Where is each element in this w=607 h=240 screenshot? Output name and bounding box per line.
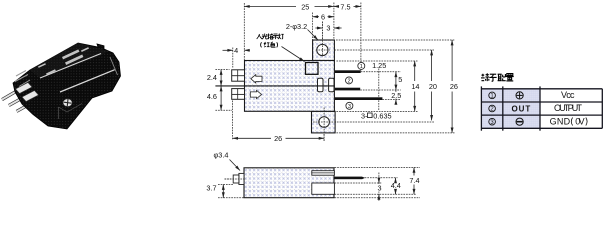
svg-text:0V: 0V	[575, 117, 584, 127]
svg-text:OUT: OUT	[512, 104, 531, 113]
svg-text:3.7: 3.7	[206, 184, 216, 193]
svg-text:25: 25	[301, 2, 309, 11]
svg-text:7.5: 7.5	[340, 2, 350, 11]
svg-text:26: 26	[274, 134, 282, 143]
svg-text:4.4: 4.4	[391, 181, 401, 190]
svg-text:2-φ3.2: 2-φ3.2	[286, 22, 307, 31]
svg-text:φ3.4: φ3.4	[214, 150, 229, 159]
svg-text:Vcc: Vcc	[561, 90, 575, 100]
svg-text:0.635: 0.635	[373, 112, 391, 121]
svg-text:2: 2	[347, 79, 350, 85]
svg-text:3: 3	[348, 104, 351, 110]
svg-text:4: 4	[234, 46, 238, 55]
svg-text:7.4: 7.4	[409, 176, 419, 185]
svg-text:3: 3	[377, 184, 381, 193]
svg-text:20: 20	[429, 82, 437, 91]
svg-text:5: 5	[398, 75, 402, 84]
svg-text:4.6: 4.6	[207, 92, 217, 101]
svg-text:26: 26	[450, 82, 458, 91]
svg-text:6: 6	[321, 13, 325, 22]
svg-text:GND: GND	[550, 117, 571, 127]
svg-text:1: 1	[360, 64, 363, 70]
svg-text:2.4: 2.4	[207, 73, 217, 82]
svg-text:3: 3	[326, 24, 330, 33]
svg-text:2.5: 2.5	[391, 91, 401, 100]
svg-text:1.25: 1.25	[372, 61, 386, 70]
svg-text:14: 14	[411, 82, 419, 91]
svg-text:3-: 3-	[361, 112, 368, 121]
svg-text:OUTPUT: OUTPUT	[554, 103, 583, 113]
